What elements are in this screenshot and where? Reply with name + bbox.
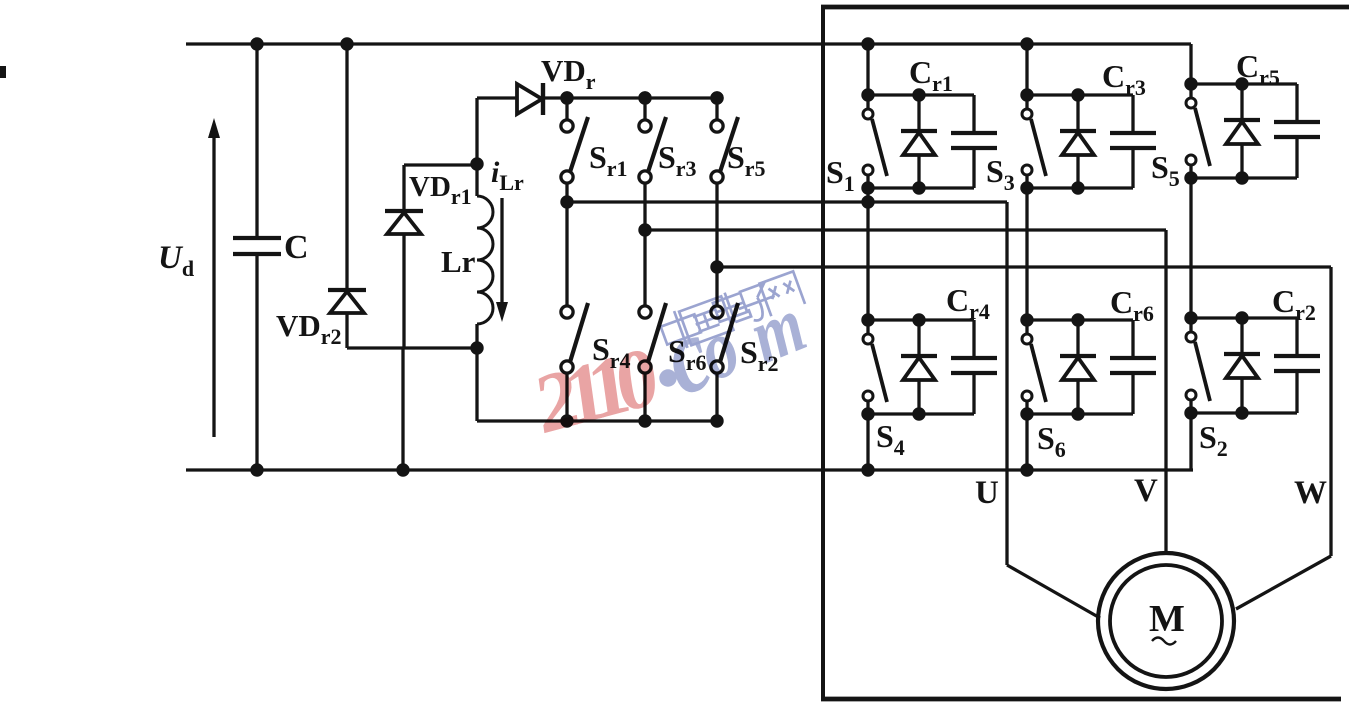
svg-text:W: W xyxy=(1294,475,1327,511)
svg-text:U: U xyxy=(975,475,999,511)
svg-text:Lr: Lr xyxy=(441,244,476,279)
svg-text:C: C xyxy=(284,229,309,266)
svg-text:V: V xyxy=(1134,473,1158,509)
svg-text:M: M xyxy=(1149,598,1185,640)
